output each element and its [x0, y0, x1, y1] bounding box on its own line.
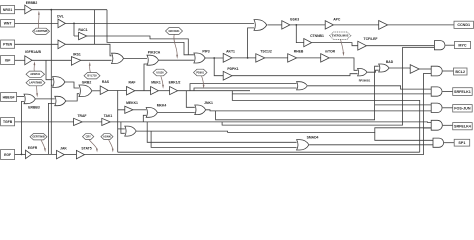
wire ERBB2 right branch down and across — [107, 10, 194, 55]
or-gate BAD — [379, 60, 394, 72]
wire RAS down to MEKK1 — [118, 91, 125, 110]
wire OR1 to PIK3CA or2 — [124, 57, 147, 59]
wire MEK1 to ERK — [158, 90, 169, 92]
output box SRFELK1 — [453, 88, 473, 96]
input box EGF — [1, 150, 15, 160]
wire branch y100.4 run to right riser — [232, 94, 419, 152]
svg-text:TRAF: TRAF — [77, 114, 86, 118]
svg-text:mTOR: mTOR — [325, 50, 336, 54]
output box SRFELK4 — [453, 123, 473, 130]
input box PTEN — [1, 40, 15, 48]
or-gate OR-B — [55, 96, 66, 105]
wire stub OR top input — [118, 128, 125, 130]
wire ERK output long — [178, 90, 250, 92]
buffer ERK1/2 — [169, 81, 181, 95]
inhibitor drug AEW541 hexagon — [26, 71, 45, 77]
inhibition arrow CRY to STAT5 wire — [89, 140, 97, 149]
buffer MEKK1 — [125, 101, 138, 113]
and-gate MYC — [434, 41, 445, 50]
buffer CTNNB1 — [304, 34, 324, 47]
or-gate RPS6KB1 — [358, 68, 371, 82]
or-gate PIK3CA — [147, 51, 161, 66]
node junction EGF split — [21, 154, 23, 156]
wire PTEN to buffer — [15, 43, 58, 45]
svg-text:RAS: RAS — [102, 80, 110, 84]
wire BCL2 AND bottom input from STAT5 riser — [423, 72, 431, 74]
svg-text:MKK4: MKK4 — [157, 103, 167, 107]
or-gate PIP3 — [194, 49, 210, 63]
or-gate mid lower left — [125, 126, 136, 136]
wire RAS output — [108, 89, 126, 91]
wire into mid lower OR top — [117, 110, 119, 152]
wire GSK3 output — [290, 24, 325, 26]
wire PDPK1 output to RPS6KB1 bottom — [232, 74, 358, 76]
svg-text:RHEB: RHEB — [294, 50, 304, 54]
wire OR1 output to GRB2 — [65, 82, 79, 88]
svg-text:U0126: U0126 — [156, 71, 164, 74]
svg-text:SRFELK4: SRFELK4 — [454, 125, 472, 129]
wire PIK3CA output — [159, 59, 194, 61]
inhibitor drug CRY hexagon — [83, 134, 94, 140]
wire branch down to SP1 top — [375, 132, 433, 140]
wire to SMAD top input — [147, 122, 296, 142]
wire ERK to SRFELK1 bottom — [232, 91, 431, 94]
input box WNT — [1, 20, 15, 28]
svg-text:PIK3CA: PIK3CA — [148, 51, 161, 55]
buffer IGFR1A/B — [25, 50, 42, 65]
inhibition arrow AEW541 to IGFR wire — [33, 65, 35, 71]
svg-text:TGFB: TGFB — [3, 120, 13, 124]
wire STAT5 long output to SRFELK4 bottom — [85, 73, 432, 154]
buffer RAF — [127, 81, 136, 95]
inhibition arrow GEFITINIB to EGFR wire — [41, 140, 45, 149]
svg-text:JAK: JAK — [60, 146, 67, 150]
svg-text:IGFR1A/B: IGFR1A/B — [25, 50, 41, 54]
wire WNT to DVL — [15, 22, 58, 24]
wire EGF up to ERBB3 lower input — [22, 101, 25, 154]
buffer DVL — [57, 14, 65, 27]
svg-text:AEW541: AEW541 — [30, 73, 41, 76]
wire CTNNB1 to TCF/LEF — [312, 43, 358, 46]
wire SRFELK1 AND output — [443, 91, 453, 93]
wire JAK to STAT5 — [64, 154, 76, 156]
wire TGFB to TRAF — [15, 121, 74, 123]
svg-text:STAT5: STAT5 — [81, 146, 91, 150]
wire MEKK1 to MKK4 — [133, 109, 146, 111]
svg-text:TAK1: TAK1 — [104, 114, 113, 118]
and-gate SP1 — [433, 138, 444, 147]
wire JNK1 branch along y118.5 to riser — [216, 66, 379, 120]
buffer mTOR — [321, 50, 336, 62]
or-gate SMAD4 — [297, 136, 319, 150]
svg-text:DVL: DVL — [57, 14, 64, 18]
wire SP1 AND output — [444, 142, 454, 144]
buffer STAT5 — [76, 146, 91, 158]
inhibition arrow PD901 to ERK wire — [202, 76, 204, 85]
wire MKK4 lower input from TAK1 — [143, 115, 146, 122]
wire ERBB3 output — [36, 98, 55, 100]
svg-text:TCF/LEF: TCF/LEF — [364, 37, 378, 41]
svg-text:NRG1: NRG1 — [3, 8, 13, 12]
svg-text:MYC: MYC — [458, 43, 467, 47]
or-gate mid unnamed — [297, 82, 308, 90]
buffer TAK1 — [102, 114, 113, 125]
wire riser branch to FOS-JUN top — [375, 104, 432, 106]
svg-text:RAF: RAF — [129, 81, 136, 85]
wire EGFR to JAK — [32, 153, 57, 155]
inhibitor drug EVEROLIMUS dashed hexagon — [330, 32, 352, 39]
svg-text:IRS1: IRS1 — [73, 52, 81, 56]
buffer PTEN row — [58, 40, 65, 49]
svg-text:EGFR: EGFR — [28, 146, 38, 150]
svg-text:RAC1: RAC1 — [78, 28, 87, 32]
node junction PIP3 split — [213, 57, 215, 59]
wire FOS-JUN AND output — [443, 107, 453, 109]
wire mid lower OR output to SRFELK4 bottom — [136, 128, 431, 133]
buffer to CCND1 — [379, 21, 388, 30]
wire BCL2 AND output — [443, 70, 454, 72]
wire ERK up pair to mid OR bottom — [194, 88, 297, 91]
wire EGF to EGFR — [15, 153, 26, 155]
inhibition arrow BYL719 to IRS1 wire — [89, 66, 92, 73]
input box TGFB — [1, 118, 15, 126]
wire ERK down to JNK1 top — [186, 91, 195, 108]
buffer MEK1 — [151, 81, 161, 95]
svg-text:CTNNB1: CTNNB1 — [310, 34, 324, 38]
and-gate BCL2 — [431, 66, 442, 76]
inhibitor drug LAPATINIB hexagon top — [33, 28, 50, 34]
wire MKK4 to JNK1 — [158, 111, 195, 113]
svg-text:ERBB3: ERBB3 — [28, 106, 40, 110]
wire mid OR output to SRFELK1 top — [308, 86, 431, 89]
inhibition arrow GDC0941 to PIK3CA wire — [174, 34, 177, 55]
wire OR to GSK3 — [268, 24, 282, 26]
wire OR-B output to GRB2 — [66, 94, 79, 101]
wire stub OR bottom input — [121, 122, 125, 133]
input box HBEGF — [1, 93, 17, 102]
buffer IRS1 — [71, 52, 80, 65]
wire MYC AND output — [445, 44, 454, 46]
svg-text:SP1: SP1 — [458, 141, 465, 145]
input box IGF — [1, 56, 15, 65]
wire APC output — [333, 24, 378, 26]
or-gate MKK4 — [146, 103, 166, 117]
wire RHEB to mTOR — [297, 57, 321, 59]
wire IRS1 output — [81, 59, 112, 61]
or-gate ERBB3 (HBEGF/EGF) — [24, 94, 40, 110]
svg-text:LAPATINIB: LAPATINIB — [29, 82, 42, 85]
inhibitor drug AG490 hexagon — [101, 134, 113, 140]
wire TAK1 output to SRFELK4 top — [110, 121, 431, 124]
output box SP1 — [454, 139, 470, 146]
wire RAS feedback up to PIK3CA — [144, 64, 147, 91]
wire TCF/LEF to MYC AND — [366, 45, 434, 47]
wire DVL output long — [65, 22, 254, 24]
svg-text:HBEGF: HBEGF — [3, 95, 15, 99]
wire IGF to IGFR — [15, 59, 25, 61]
wire buffer to BCL2 AND — [419, 68, 431, 70]
svg-text:GSK3: GSK3 — [290, 17, 299, 21]
wire GRB2 to RAS — [92, 90, 100, 92]
or-gate PIK3CA first — [112, 53, 124, 63]
buffer PDPK1 — [223, 67, 239, 80]
svg-text:MEKK1: MEKK1 — [126, 101, 138, 105]
svg-text:SMAD4: SMAD4 — [307, 136, 319, 140]
inhibition arrow LAPATINIB to ERBB3 wire — [35, 86, 38, 94]
wire to CCND1 box — [388, 24, 454, 26]
and-gate SRFELK4 — [431, 120, 442, 130]
wire GSK3 down to CTNNB1 — [296, 25, 304, 43]
output box MYC — [455, 41, 471, 48]
wire mTOR output down to RPS6KB1 — [329, 58, 357, 70]
input box NRG1 — [1, 6, 15, 14]
node junction DVL split — [73, 23, 75, 25]
output box FOS-JUN — [453, 105, 473, 112]
svg-text:MEK1: MEK1 — [151, 81, 161, 85]
svg-text:JNK1: JNK1 — [204, 101, 213, 105]
wire HBEGF to ERBB3 — [17, 96, 24, 98]
output box CCND1 — [454, 21, 474, 28]
buffer GSK3 — [282, 17, 299, 29]
or-gate receptors OR1 — [53, 77, 65, 88]
or-gate JNK1 — [195, 101, 213, 115]
wire ERBB2 down to OR gate lower input — [51, 10, 52, 155]
wire BAD to buffer — [389, 68, 410, 69]
or-gate WNT/AKT — [254, 20, 267, 31]
inhibition arrow LAPATINIB to ERBB2 wire — [37, 15, 40, 29]
inhibitor drug GDC0941 hexagon — [166, 28, 183, 35]
wire AKT1 up to WNT OR gate — [248, 28, 254, 58]
svg-text:TSC1/2: TSC1/2 — [260, 50, 272, 54]
svg-text:ERBB2: ERBB2 — [26, 1, 38, 5]
svg-text:PD901: PD901 — [196, 71, 204, 74]
buffer RAS — [100, 80, 110, 94]
inhibitor drug LAPATINIB hexagon lower — [26, 80, 45, 86]
wire branch down to OR1 top input — [46, 60, 53, 79]
buffer RHEB — [288, 50, 304, 62]
svg-text:WNT: WNT — [4, 22, 13, 26]
svg-text:AG490: AG490 — [103, 136, 112, 139]
svg-text:GDC0941: GDC0941 — [168, 30, 180, 33]
wire ERBB2 output — [32, 9, 107, 11]
inhibitor drug GEFITINIB hexagon — [30, 134, 47, 140]
svg-text:PTEN: PTEN — [3, 43, 13, 47]
node junction ERBB2 split — [50, 9, 52, 11]
wire IGFR output — [32, 59, 71, 61]
buffer APC — [325, 18, 341, 29]
and-gate FOS-JUN — [431, 103, 442, 112]
svg-text:SRFELK1: SRFELK1 — [454, 90, 471, 94]
svg-text:CCND1: CCND1 — [457, 23, 470, 27]
buffer TRAF — [74, 114, 87, 125]
svg-text:AKT1: AKT1 — [226, 49, 235, 53]
wire TSC to RHEB — [265, 57, 288, 59]
svg-text:BAD: BAD — [386, 60, 394, 64]
inhibitor drug U0126 hexagon — [153, 69, 167, 76]
svg-text:EGF: EGF — [4, 153, 11, 157]
wire mTOR chain: AKT to TSC — [256, 50, 272, 62]
wire SMAD output to SP1 bottom — [309, 144, 433, 146]
wire to SMAD bottom input — [151, 131, 297, 147]
svg-text:BYL719: BYL719 — [87, 75, 97, 78]
svg-text:APC: APC — [333, 18, 341, 22]
wire TRAF to TAK1 — [82, 121, 102, 123]
wire EGFR up to OR-B lower input — [48, 103, 54, 154]
wire ERBB2 down to PTEN row — [94, 10, 96, 45]
wire ERK up pair to mid OR top — [190, 84, 297, 91]
svg-text:IGF: IGF — [5, 58, 11, 62]
svg-text:GRB2: GRB2 — [82, 80, 92, 84]
wire PTEN buffer output — [65, 44, 111, 56]
inhibition arrow AG490 to STAT5 wire — [109, 140, 113, 149]
buffer TCF/LEF — [358, 37, 378, 50]
svg-text:BCL2: BCL2 — [455, 70, 465, 74]
wire TAK1 branch staircase to MYC — [222, 48, 434, 126]
buffer RAC1 — [78, 28, 87, 40]
svg-text:PIP3: PIP3 — [202, 49, 209, 53]
and-gate SRFELK1 — [431, 87, 442, 96]
buffer before BCL2 — [410, 65, 419, 74]
wire AKT1 output — [232, 57, 256, 59]
svg-text:FOS-JUN: FOS-JUN — [454, 107, 471, 111]
svg-text:CRY: CRY — [86, 136, 92, 139]
node junction GSK3 split — [295, 24, 297, 26]
wire JNK1 output to FOS-JUN bottom — [206, 110, 431, 111]
inhibitor drug PD901 hexagon — [194, 69, 208, 76]
svg-text:ERK1/2: ERK1/2 — [169, 81, 181, 85]
svg-text:EVEROLIMUS: EVEROLIMUS — [332, 35, 349, 38]
output box BCL2 — [454, 68, 468, 75]
inhibitor drug BYL719 hexagon — [84, 73, 100, 79]
svg-text:GEFITINIB: GEFITINIB — [32, 136, 45, 139]
buffer EGFR — [26, 146, 38, 158]
buffer ERBB2 — [25, 1, 38, 14]
svg-text:RPS6KB1: RPS6KB1 — [359, 80, 371, 83]
node junction AKT1 split — [247, 57, 249, 59]
wire SRFELK4 AND output — [443, 124, 453, 126]
wire PIP3 output — [205, 57, 223, 59]
buffer JAK — [57, 146, 68, 158]
wire RPS6KB1 to BAD bottom — [367, 70, 379, 72]
wire lower parallel run — [118, 151, 420, 153]
inhibition arrow EVEROLIMUS to mTOR wire — [341, 39, 344, 52]
wire RAC1 output — [87, 36, 189, 55]
svg-text:PDPK1: PDPK1 — [227, 67, 238, 71]
svg-text:LAPATINIB: LAPATINIB — [35, 30, 48, 33]
buffer AKT1 — [223, 49, 235, 62]
wire into RAC1 — [74, 23, 79, 36]
inhibition arrow U0126 to MEK wire — [161, 76, 163, 85]
wire RAF to MEK1 — [135, 90, 151, 92]
or-gate GRB2 — [79, 80, 92, 96]
wire NRG1 to ERBB2 — [15, 9, 25, 11]
wire PIP3 down to PDPK1 — [214, 58, 223, 76]
